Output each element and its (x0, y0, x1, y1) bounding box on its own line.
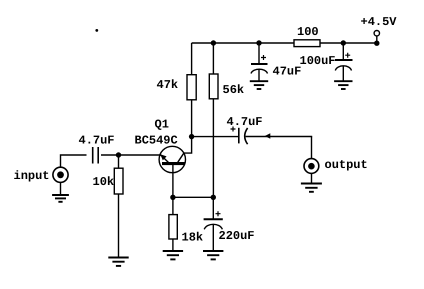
wire 47k top (191, 43, 193, 75)
svg-text:18k: 18k (182, 231, 204, 245)
svg-text:100: 100 (297, 25, 319, 39)
wire 18k bottom (172, 239, 174, 251)
resistor R 56k (209, 74, 218, 99)
wire output horizontal right (246, 136, 313, 138)
wire input terminal up (61, 155, 87, 167)
wire emitter bottom lead (172, 165, 174, 197)
wire output node horizontal left (192, 136, 239, 138)
capacitor C 220uF (204, 197, 223, 251)
terminal output (304, 159, 319, 174)
capacitor C 47uF (251, 43, 268, 81)
wire output drop (311, 137, 313, 159)
capacitor C 4.7uF input (93, 147, 99, 164)
arrow on output wire (265, 133, 271, 139)
resistor R 100 (294, 40, 320, 47)
junction rail right end (374, 41, 379, 46)
ground 220uF (203, 251, 223, 259)
svg-text:100uF: 100uF (300, 54, 336, 68)
stray dot artifact (95, 29, 98, 32)
terminal +4.5V (374, 31, 379, 36)
svg-text:Q1: Q1 (155, 118, 169, 132)
wire 56k top (212, 43, 214, 74)
wire 10k top (118, 155, 120, 168)
svg-text:input: input (14, 169, 50, 183)
capacitor C 100uF (335, 43, 353, 81)
svg-text:+4.5V: +4.5V (361, 15, 398, 29)
wire input terminal to ground (60, 182, 62, 195)
svg-text:56k: 56k (223, 83, 245, 97)
svg-text:47uF: 47uF (273, 64, 302, 78)
resistor R 18k (169, 215, 177, 239)
svg-text:4.7uF: 4.7uF (79, 134, 115, 148)
junction rail 100uF (341, 40, 346, 45)
ground output (301, 184, 322, 192)
junction collector node (189, 134, 194, 139)
junction rail 56k (211, 40, 216, 45)
capacitor C 4.7uF output (231, 127, 248, 145)
wire output terminal to ground (311, 173, 313, 183)
svg-text:10k: 10k (93, 175, 115, 189)
resistor R 10k (114, 168, 123, 194)
ground 10k (108, 258, 128, 266)
svg-text:220uF: 220uF (219, 229, 255, 243)
junction 10k node (116, 152, 121, 157)
wire supply rail left segment (192, 42, 294, 44)
wire 56k bottom (212, 99, 214, 198)
resistor R 47k (187, 75, 196, 100)
junction rail 47uF (256, 40, 261, 45)
wire emitter node horizontal (173, 196, 213, 198)
ground 47uF (250, 81, 268, 89)
wire input cap to 10k node (101, 154, 119, 156)
junction emitter node left (170, 195, 175, 200)
junction emitter node right (211, 195, 216, 200)
wire collector stub (184, 137, 192, 154)
terminal input (53, 167, 68, 182)
svg-text:47k: 47k (157, 78, 179, 92)
wire 10k bottom (118, 194, 120, 258)
wire base (emitter lead) from input (119, 154, 162, 156)
wire terminal stub (376, 36, 378, 42)
svg-text:output: output (325, 158, 368, 172)
wire 47k bottom (191, 100, 193, 137)
wire supply rail right segment (320, 42, 377, 44)
ground 100uF (334, 81, 352, 89)
svg-text:BC549C: BC549C (135, 134, 178, 148)
ground input (52, 195, 69, 202)
svg-text:4.7uF: 4.7uF (227, 115, 263, 129)
transistor Q1 BC549C (159, 146, 185, 172)
ground 18k (163, 251, 183, 259)
wire 18k top (172, 197, 174, 214)
